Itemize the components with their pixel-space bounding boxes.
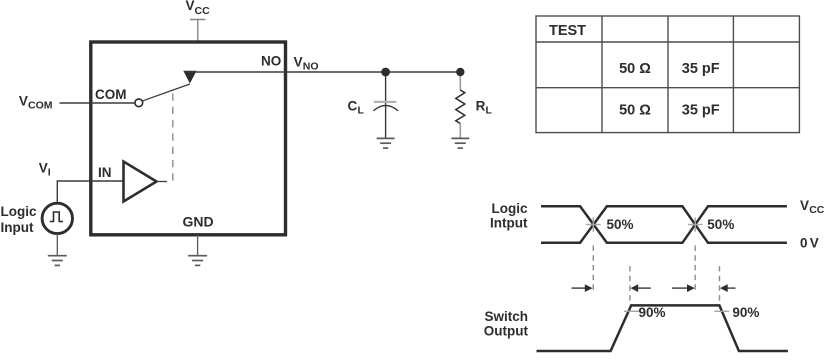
wire IN (57, 181, 123, 203)
svg-text:V: V (810, 235, 819, 250)
svg-text:V: V (186, 0, 195, 13)
resistor RL top lead (459, 76, 461, 90)
table TEST conditions (536, 16, 799, 133)
capacitor CL plates (374, 102, 399, 111)
switch output waveform (537, 305, 788, 351)
buffer output stub (157, 181, 168, 183)
svg-text:L: L (358, 105, 365, 117)
dashed line t4 (719, 266, 721, 304)
dashed line t2 (629, 266, 631, 304)
wire GND stub (197, 235, 199, 256)
pulse source V1 (42, 203, 72, 233)
svg-text:Output: Output (484, 324, 529, 339)
wire COM (60, 102, 135, 104)
svg-text:Switch: Switch (484, 309, 528, 324)
wire source to ground (56, 234, 58, 256)
resistor RL bottom lead (459, 124, 461, 139)
svg-text:35 pF: 35 pF (682, 102, 720, 118)
switch blade (143, 84, 190, 101)
net label VCOM (19, 93, 53, 111)
arrow tON left (572, 284, 593, 292)
switch pole triangle (183, 71, 196, 84)
table row3 values (619, 102, 720, 118)
svg-text:TEST: TEST (549, 23, 586, 39)
dashed control line (172, 94, 174, 183)
net label VI (39, 160, 51, 178)
svg-text:Input: Input (1, 220, 34, 235)
buffer driver (124, 162, 157, 202)
svg-text:GND: GND (183, 214, 214, 230)
switch contact circle (135, 99, 143, 107)
label RL (476, 99, 493, 117)
label Logic Input source (1, 204, 37, 235)
svg-text:NO: NO (261, 53, 281, 68)
svg-text:I: I (48, 167, 51, 179)
label CL (348, 99, 365, 117)
net label VNO (294, 55, 319, 73)
ground logic source (48, 256, 67, 266)
svg-text:L: L (486, 105, 493, 117)
resistor RL zigzag (456, 90, 465, 124)
power VCC stub (190, 20, 206, 43)
svg-text:CC: CC (809, 204, 825, 216)
arrow tOFF right (720, 284, 736, 292)
svg-text:Intput: Intput (490, 216, 528, 231)
svg-text:50%: 50% (707, 217, 734, 232)
svg-text:Logic: Logic (1, 204, 37, 219)
svg-text:NO: NO (303, 61, 319, 73)
svg-text:50%: 50% (607, 217, 634, 232)
svg-text:0: 0 (800, 235, 808, 250)
svg-text:C: C (348, 99, 358, 114)
svg-text:V: V (800, 198, 809, 213)
svg-text:50 Ω: 50 Ω (619, 102, 651, 118)
dashed line t3 (694, 246, 696, 294)
svg-text:90%: 90% (732, 305, 759, 320)
50% tick 2 (688, 217, 703, 232)
ground RL (451, 138, 469, 148)
50% tick 1 (586, 217, 601, 232)
svg-text:COM: COM (28, 100, 53, 112)
svg-text:90%: 90% (639, 305, 666, 320)
svg-text:CC: CC (195, 5, 211, 17)
90% tick 1 (624, 310, 639, 312)
90% tick 2 (714, 310, 729, 312)
label Logic Intput (490, 201, 528, 231)
power VCC label (186, 0, 211, 17)
svg-text:Logic: Logic (492, 201, 528, 216)
logic input waveform (541, 206, 787, 243)
svg-text:IN: IN (98, 165, 112, 180)
junction node 1 (381, 68, 390, 77)
svg-text:V: V (19, 93, 28, 108)
capacitor CL lead (385, 76, 387, 138)
table row2 values (619, 61, 720, 77)
svg-text:V: V (39, 160, 48, 175)
ground GND pin (188, 256, 207, 266)
dashed line t1 (592, 246, 594, 294)
ground CL (377, 138, 395, 148)
wire NO to load (186, 71, 460, 73)
IC body U1 (91, 42, 286, 235)
svg-text:COM: COM (95, 87, 127, 102)
svg-text:50 Ω: 50 Ω (619, 61, 651, 77)
arrow tON right (631, 284, 651, 292)
svg-text:V: V (294, 55, 303, 70)
label Switch Output (484, 309, 529, 339)
svg-text:35 pF: 35 pF (682, 61, 720, 77)
arrow tOFF left (672, 284, 695, 292)
rail label VCC (800, 198, 825, 216)
svg-text:R: R (476, 99, 486, 114)
junction node 2 (456, 68, 464, 76)
